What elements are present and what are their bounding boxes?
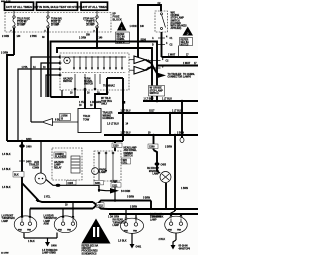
svg-text:TOW: TOW <box>83 118 90 122</box>
svg-text:C211: C211 <box>112 185 118 187</box>
svg-text:1 LT BLU: 1 LT BLU <box>162 99 172 101</box>
svg-text:TURN/STOP: TURN/STOP <box>113 222 127 224</box>
svg-text:1.5 BLK: 1.5 BLK <box>2 187 11 189</box>
svg-text:HAZARD: HAZARD <box>54 161 64 164</box>
svg-text:2 BRN: 2 BRN <box>165 147 172 149</box>
svg-text:SWITCH: SWITCH <box>150 93 159 95</box>
svg-text:TRN: TRN <box>177 230 182 232</box>
svg-text:TRN: TRN <box>27 230 32 232</box>
svg-text:3 BRN: 3 BRN <box>143 198 150 200</box>
svg-text:CONNECTOR: CONNECTOR <box>168 77 183 79</box>
svg-text:TRLR: TRLR <box>83 114 90 118</box>
svg-text:1.5 BLK: 1.5 BLK <box>2 154 11 156</box>
svg-text:WITH BRAKES: WITH BRAKES <box>171 25 188 28</box>
svg-text:MARKER: MARKER <box>149 170 159 173</box>
svg-text:AND PANEL: AND PANEL <box>124 149 138 152</box>
svg-text:HARNESS: HARNESS <box>103 117 115 120</box>
svg-text:20 AMP: 20 AMP <box>86 24 95 27</box>
svg-text:1 WHT: 1 WHT <box>183 63 191 65</box>
svg-text:LAMP GRND: LAMP GRND <box>42 251 56 254</box>
svg-text:PRK: PRK <box>58 230 63 232</box>
svg-text:3 BRN: 3 BRN <box>127 197 134 199</box>
svg-text:1 WHT: 1 WHT <box>168 55 176 57</box>
svg-text:LAMP: LAMP <box>150 218 157 221</box>
svg-text:1.5 TORNADO: 1.5 TORNADO <box>42 249 58 252</box>
svg-text:TOW PKG: TOW PKG <box>101 101 112 103</box>
svg-text:AUX: AUX <box>34 161 39 164</box>
svg-text:NOTES: NOTES <box>181 45 189 47</box>
svg-text:1.5 BLK: 1.5 BLK <box>2 169 11 171</box>
svg-text:LH FRONT: LH FRONT <box>2 216 14 218</box>
svg-text:2 ORN: 2 ORN <box>2 36 9 38</box>
svg-text:1 BLK: 1 BLK <box>28 241 35 243</box>
svg-text:G401: G401 <box>136 246 142 249</box>
svg-text:1 LT BLU: 1 LT BLU <box>172 111 182 113</box>
svg-text:TURN/PARK: TURN/PARK <box>2 217 16 220</box>
svg-text:20 AMP: 20 AMP <box>51 24 60 27</box>
svg-text:FLASHER: FLASHER <box>55 156 66 159</box>
svg-text:S331: S331 <box>95 183 101 185</box>
svg-text:1 ORN: 1 ORN <box>79 38 86 40</box>
svg-text:C405: C405 <box>68 182 74 185</box>
svg-text:CIRCUIT: CIRCUIT <box>82 248 92 250</box>
svg-text:1 LT BLU: 1 LT BLU <box>121 133 131 135</box>
svg-text:ONLY: ONLY <box>101 104 108 106</box>
svg-text:C212: C212 <box>97 206 103 208</box>
svg-text:RH FRONT: RH FRONT <box>147 168 159 170</box>
svg-text:W/ CRUISE: W/ CRUISE <box>150 88 163 90</box>
svg-text:C400: C400 <box>26 146 32 149</box>
svg-text:HEADLAMP: HEADLAMP <box>124 147 137 150</box>
svg-text:RH FRONT: RH FRONT <box>150 214 162 216</box>
svg-text:HOT AT ALL TIMES: HOT AT ALL TIMES <box>6 5 32 9</box>
svg-text:1 ORN: 1 ORN <box>129 26 136 28</box>
svg-text:1 YEL: 1 YEL <box>79 102 86 104</box>
svg-text:DRL: DRL <box>123 163 128 165</box>
svg-text:HAZARD: HAZARD <box>63 78 73 81</box>
svg-text:SEC 8A: SEC 8A <box>117 36 126 39</box>
svg-text:PARK: PARK <box>100 169 107 172</box>
svg-text:TRN: TRN <box>67 230 72 232</box>
svg-text:RH REAR: RH REAR <box>113 219 124 222</box>
svg-text:SWITCH: SWITCH <box>124 156 133 158</box>
svg-text:TRAILER: TRAILER <box>103 112 113 115</box>
svg-text:TURN/HAZ: TURN/HAZ <box>103 85 115 88</box>
svg-text:SWITCH: SWITCH <box>63 81 72 83</box>
svg-text:S217: S217 <box>149 111 155 113</box>
svg-text:PRK: PRK <box>124 231 129 233</box>
svg-text:STOP LAMP: STOP LAMP <box>150 89 164 92</box>
svg-text:C209: C209 <box>149 147 155 149</box>
svg-text:4X4STOP6: 4X4STOP6 <box>179 248 191 251</box>
svg-text:TRAILER: TRAILER <box>29 164 39 167</box>
svg-text:2 PNK: 2 PNK <box>30 36 37 38</box>
svg-text:LAMP: LAMP <box>54 164 61 167</box>
svg-text:HOT AT ALL TIMES: HOT AT ALL TIMES <box>81 5 107 9</box>
svg-text:LAMP: LAMP <box>113 224 120 227</box>
svg-text:W/ TRLR: W/ TRLR <box>101 98 111 100</box>
svg-text:BLK: BLK <box>14 175 19 177</box>
svg-text:LAMP: LAMP <box>2 220 9 223</box>
svg-text:LAMPS: LAMPS <box>183 76 192 79</box>
svg-text:PRK: PRK <box>18 230 23 232</box>
svg-text:LH REAR: LH REAR <box>44 215 55 218</box>
svg-text:1.5 BLK: 1.5 BLK <box>118 241 127 243</box>
svg-text:SWITCH: SWITCH <box>84 84 93 86</box>
svg-text:14 CRW: 14 CRW <box>1 252 9 255</box>
svg-text:1 LT BLU: 1 LT BLU <box>144 99 154 101</box>
svg-text:HOT IN RUN, BULB TEST OR START: HOT IN RUN, BULB TEST OR START <box>33 5 82 9</box>
svg-text:W/O: W/O <box>123 160 128 162</box>
svg-text:SEC 8A: SEC 8A <box>181 41 190 44</box>
svg-text:S303: S303 <box>26 139 32 141</box>
svg-text:20 AMP: 20 AMP <box>17 24 26 27</box>
svg-text:2 BLK: 2 BLK <box>159 239 166 241</box>
svg-text:2 YEL: 2 YEL <box>44 197 51 199</box>
svg-text:1 DK GRN: 1 DK GRN <box>108 217 119 219</box>
svg-text:LAMP: LAMP <box>152 173 159 176</box>
svg-text:B 8 BRN: B 8 BRN <box>121 191 131 193</box>
svg-text:DIMMER: DIMMER <box>124 153 134 155</box>
svg-text:S400: S400 <box>26 161 32 164</box>
svg-text:05-16-96: 05-16-96 <box>179 246 189 248</box>
svg-text:1 BRN: 1 BRN <box>61 116 68 118</box>
svg-text:TRN: TRN <box>133 231 138 233</box>
svg-text:TURN/PARK: TURN/PARK <box>150 216 164 219</box>
svg-text:1 PPL: 1 PPL <box>22 67 29 69</box>
svg-text:COMBO: COMBO <box>55 154 64 156</box>
svg-text:TURN/STOP: TURN/STOP <box>44 218 58 220</box>
svg-text:LAMP: LAMP <box>100 171 107 174</box>
svg-text:1.5 LT BLU: 1.5 LT BLU <box>107 124 119 126</box>
svg-text:LAMP: LAMP <box>44 220 51 223</box>
svg-text:G400: G400 <box>51 245 57 248</box>
svg-text:TO TRAILER: TO TRAILER <box>168 73 182 76</box>
svg-text:REFER SEC 8A: REFER SEC 8A <box>82 244 99 247</box>
svg-text:BLOCK: BLOCK <box>113 18 122 22</box>
svg-text:ASM: ASM <box>44 223 49 226</box>
svg-text:C455: C455 <box>161 164 167 167</box>
svg-text:2 BRN: 2 BRN <box>177 133 184 135</box>
svg-text:SIGNAL: SIGNAL <box>84 80 93 83</box>
svg-text:2 BRN: 2 BRN <box>130 207 137 209</box>
svg-text:C210: C210 <box>113 146 119 148</box>
svg-text:STOP LAMP: STOP LAMP <box>171 17 185 20</box>
svg-text:WIRING: WIRING <box>103 115 112 117</box>
svg-text:APPLIED): APPLIED) <box>171 27 182 30</box>
svg-text:RELAY: RELAY <box>54 166 62 169</box>
svg-text:CONN: CONN <box>32 167 39 169</box>
svg-text:1 BRN: 1 BRN <box>181 188 188 190</box>
svg-text:PRK: PRK <box>168 230 173 232</box>
svg-text:1 DK GRN: 1 DK GRN <box>90 102 101 104</box>
